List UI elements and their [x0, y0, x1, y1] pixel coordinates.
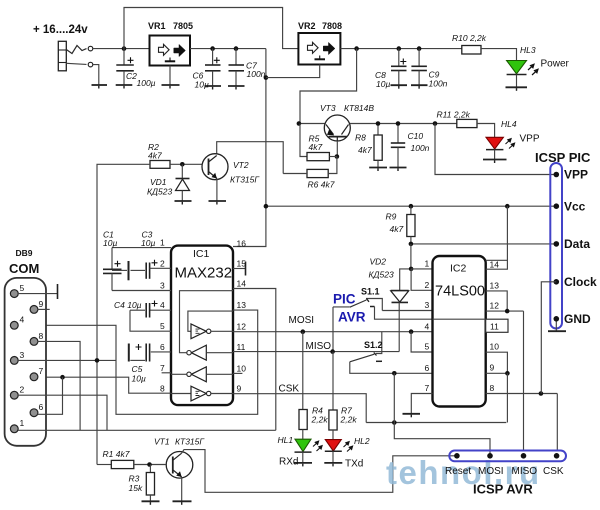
svg-text:AVR: AVR	[338, 310, 366, 325]
svg-text:ICSP PIC: ICSP PIC	[535, 150, 591, 165]
svg-text:7: 7	[425, 383, 430, 393]
svg-text:R6 4k7: R6 4k7	[308, 180, 335, 190]
node: MISO row junction (S1.1 common)	[330, 349, 335, 354]
ground (jack)	[92, 83, 108, 89]
transistor VT3 KT814B (PNP)	[324, 115, 350, 141]
svg-text:VPP: VPP	[520, 134, 540, 145]
capacitor C10	[391, 124, 405, 168]
svg-text:6: 6	[160, 342, 165, 352]
svg-text:ICSP AVR: ICSP AVR	[473, 482, 533, 497]
ground (C10)	[390, 168, 407, 172]
wire: R6 left lead	[283, 173, 307, 175]
svg-text:HL3: HL3	[520, 45, 536, 55]
wire: VR1 ground pin	[169, 66, 171, 86]
svg-text:10µ: 10µ	[195, 80, 209, 90]
ground (C2)	[116, 85, 133, 89]
IC2 74LS00 body	[433, 256, 486, 407]
ICSP AVR connector capsule	[449, 451, 566, 462]
node: MOSI row to IC2 pin5	[409, 329, 414, 334]
wire: VPP to ICSP PIC	[435, 124, 556, 175]
svg-text:R10 2,2k: R10 2,2k	[452, 33, 487, 43]
node: pins 12/13 tie	[505, 309, 510, 314]
wire: MISO row (IC1 pin11 to VD2)	[233, 351, 399, 353]
capacitor C4 (pins 4-5)	[130, 301, 171, 332]
resistor R11	[457, 119, 477, 127]
wire: left column from R2 down to R1	[97, 164, 150, 464]
svg-text:2,2k: 2,2k	[340, 415, 358, 425]
resistor R1	[97, 460, 166, 468]
svg-text:10µ: 10µ	[141, 238, 155, 248]
svg-text:MISO: MISO	[306, 341, 332, 352]
svg-text:8: 8	[39, 331, 44, 341]
node: C10 top	[396, 121, 401, 126]
svg-text:9: 9	[237, 384, 242, 394]
resistor R3	[146, 465, 154, 502]
svg-text:74LS00: 74LS00	[435, 284, 485, 300]
svg-text:COM: COM	[9, 261, 39, 276]
wire: S1.1 PIC throw to IC2 pin3	[382, 310, 432, 312]
LED HL4 (red, VPP)	[486, 137, 515, 159]
wire: Data node down to IC2 pin1	[410, 244, 412, 269]
node: raw input junction	[122, 46, 127, 51]
svg-text:R11 2,2k: R11 2,2k	[437, 110, 471, 120]
transistor VT2 KT315G (NPN)	[202, 154, 228, 180]
node: pins 9/10 tie	[505, 371, 510, 376]
svg-text:100n: 100n	[411, 143, 430, 153]
svg-text:Data: Data	[564, 237, 590, 251]
svg-text:КД523: КД523	[147, 187, 172, 197]
node: R1/R3/VT1 base	[147, 462, 152, 467]
wire: R6 right to base node	[328, 157, 337, 174]
svg-text:14: 14	[237, 279, 247, 289]
svg-text:9: 9	[490, 363, 495, 373]
node: VT3 emitter junction	[297, 121, 302, 126]
svg-text:R8: R8	[355, 133, 366, 143]
svg-text:10: 10	[490, 342, 500, 352]
ground (HL1)	[294, 463, 312, 467]
regulator VR2 7808	[298, 33, 340, 65]
svg-text:6: 6	[39, 402, 44, 412]
svg-text:12: 12	[237, 322, 247, 332]
DB9 pin 6	[30, 402, 43, 417]
pin Reset	[454, 453, 460, 459]
IC1 left pin labels 1..8	[160, 238, 165, 394]
svg-text:100n: 100n	[247, 69, 266, 79]
node: R2/VD1 junction	[180, 162, 185, 167]
svg-text:VD1: VD1	[150, 177, 167, 187]
ground (HL2)	[324, 463, 342, 467]
node: DB9 pin6/7 tie	[60, 375, 65, 380]
svg-text:6: 6	[425, 363, 430, 373]
DB9 pin 1	[10, 418, 24, 433]
wire: DB9 pin1 row to IC1 pin14 route	[18, 429, 276, 431]
IC2 pin 13	[486, 281, 508, 312]
IC2 pin 11 box	[486, 319, 508, 332]
svg-text:C2: C2	[126, 71, 137, 81]
svg-text:MOSI: MOSI	[289, 315, 315, 326]
svg-text:4: 4	[160, 300, 165, 310]
svg-text:Vcc: Vcc	[564, 200, 586, 214]
pin GND	[554, 316, 560, 322]
switch S1.1	[333, 299, 486, 320]
ground (VD1)	[175, 201, 192, 205]
svg-text:GND: GND	[564, 312, 591, 326]
svg-text:PIC: PIC	[333, 292, 356, 307]
jack lower contact	[66, 62, 92, 67]
wire: DB9 pin6 up to pin7	[38, 377, 63, 414]
svg-text:7: 7	[39, 366, 44, 376]
capacitor C3 (series, pin 2)	[112, 260, 171, 281]
wire: VR1 output 5V rail	[190, 48, 266, 50]
diode VD1 KD523	[176, 164, 190, 201]
wire: VT3 base down	[336, 141, 338, 157]
svg-text:11: 11	[490, 322, 499, 332]
IC1 internal inverter T1 (schmitt, pins 13->12)	[188, 311, 233, 339]
DB9 pin 8	[30, 331, 43, 345]
ground (HL4)	[483, 160, 507, 164]
svg-text:IC1: IC1	[193, 248, 210, 260]
svg-text:7: 7	[160, 363, 165, 373]
wire: MISO column to ICSP AVR	[523, 311, 525, 450]
svg-text:Reset: Reset	[445, 466, 471, 477]
svg-text:4k7: 4k7	[358, 145, 372, 155]
wire: S1.1 AVR throw crossing IC2 to pin 11	[433, 318, 486, 320]
svg-text:MISO: MISO	[512, 466, 538, 477]
svg-text:КТ814В: КТ814В	[344, 103, 374, 113]
svg-text:+ 16....24v: + 16....24v	[33, 24, 88, 36]
svg-text:7808: 7808	[322, 21, 342, 31]
svg-text:VPP: VPP	[564, 168, 588, 182]
svg-text:MOSI: MOSI	[478, 466, 504, 477]
node: IC2 pin14 branch on Vcc	[505, 204, 510, 209]
pin CSK (AVR)	[554, 453, 560, 459]
node: VT3 base node	[335, 154, 340, 159]
resistor R8	[374, 124, 382, 168]
wire: S1.2 common down / MOSI feed	[394, 373, 490, 456]
svg-text:10: 10	[237, 364, 247, 374]
IC1 pin 15 stub with bar	[233, 259, 246, 276]
ground (HL3)	[506, 87, 528, 91]
svg-text:CSK: CSK	[279, 384, 300, 395]
node: C7 junction	[234, 46, 239, 51]
LED HL3 (green, Power)	[507, 61, 538, 88]
wire: DB9 pin2 (RX) to pin1 row	[18, 395, 107, 430]
wire: Vcc line 5V to ICSP PIC	[266, 205, 556, 207]
svg-text:R9: R9	[386, 212, 397, 222]
resistor R2	[150, 161, 170, 169]
node: 13V branch	[354, 46, 359, 51]
DB9 pin 4	[10, 315, 24, 330]
svg-text:4: 4	[20, 315, 25, 325]
capacitor C8	[391, 49, 407, 86]
svg-text:5: 5	[160, 321, 165, 331]
ground (R8)	[369, 168, 387, 172]
power jack J1	[58, 41, 66, 71]
node: C6 junction	[210, 46, 215, 51]
svg-text:1: 1	[20, 418, 25, 428]
svg-text:C4 10µ: C4 10µ	[114, 300, 142, 310]
node: TX to R2/R1 column	[95, 358, 100, 363]
node: VPP branch	[433, 121, 438, 126]
svg-text:IC2: IC2	[450, 263, 467, 275]
ICSP PIC connector capsule	[550, 163, 562, 329]
svg-text:10µ: 10µ	[132, 374, 146, 384]
svg-text:7805: 7805	[173, 21, 193, 31]
wire: switch to +V node	[93, 48, 150, 50]
diode VD2 KD523	[391, 269, 411, 352]
ground (ICSP PIC)	[548, 322, 566, 332]
svg-text:4k7: 4k7	[390, 224, 404, 234]
svg-text:1: 1	[160, 238, 165, 248]
wire: DB9 pin3 row (TX)	[18, 359, 116, 361]
svg-text:2,2k: 2,2k	[311, 415, 329, 425]
wire: R2 to VT2 base	[170, 163, 203, 165]
svg-text:TXd: TXd	[345, 459, 363, 470]
IC2 pin 9	[486, 363, 508, 374]
node: IC2 pin1/R9 junction	[409, 267, 414, 272]
resistor R9	[407, 206, 415, 244]
regulator VR1 7805	[150, 36, 191, 66]
wire: VT1 collector to ICSP AVR Reset	[182, 450, 457, 493]
svg-text:CSK: CSK	[543, 466, 564, 477]
svg-text:C10: C10	[408, 131, 424, 141]
DB9 pin 9	[30, 299, 50, 313]
svg-text:8: 8	[160, 384, 165, 394]
DB9 pin 3	[10, 350, 24, 364]
wire: Data line to ICSP PIC	[411, 243, 556, 245]
wire: IC1 pin8 row from DB9 pins 6/7	[18, 377, 171, 393]
wire: MOSI row (IC1 pin12 to IC2 pin4)	[233, 331, 433, 333]
node: C9 junction	[417, 46, 422, 51]
IC2 pin 10	[486, 342, 508, 374]
ground (VT2)	[209, 201, 227, 205]
svg-text:КД523: КД523	[369, 270, 394, 280]
wire: top rail raw supply to VR2 input	[124, 8, 298, 49]
svg-text:100µ: 100µ	[137, 78, 156, 88]
switch on jack (upper contact)	[66, 46, 92, 54]
capacitor C2	[116, 49, 134, 85]
svg-text:14: 14	[490, 260, 500, 270]
pin VPP	[554, 172, 560, 178]
wire: 13V down to VT3 emitter	[300, 49, 357, 124]
svg-text:VR1: VR1	[148, 21, 166, 31]
wire: R5 to base node	[329, 156, 337, 158]
svg-text:5: 5	[20, 283, 25, 293]
svg-text:R3: R3	[129, 474, 140, 484]
ground (VT1)	[173, 501, 192, 505]
node: R9 bottom / Data	[409, 242, 414, 247]
node: Vcc at 5V rail	[264, 204, 269, 209]
node: S1.2/pin6 junction	[392, 371, 397, 376]
wire: S1.1 common down to MISO/TXd column	[332, 307, 334, 352]
wire: Clock to IC2 pin8	[541, 282, 556, 394]
wire: R10 to HL3	[481, 49, 517, 60]
svg-text:2: 2	[160, 259, 165, 269]
svg-text:100n: 100n	[429, 79, 448, 89]
svg-text:2: 2	[425, 280, 430, 290]
node: CSK/S1.2 crossing junction	[392, 420, 397, 425]
wire: jack return to ground	[93, 65, 99, 83]
svg-text:VT2: VT2	[233, 160, 249, 170]
svg-text:S1.1: S1.1	[361, 287, 380, 297]
IC2 left pin labels	[425, 259, 430, 394]
svg-text:C5: C5	[132, 364, 143, 374]
ground (C8)	[391, 85, 408, 89]
svg-text:R1 4k7: R1 4k7	[103, 449, 130, 459]
DB9 connector COM	[5, 278, 46, 446]
wire: IC1 pin13 row to DB9 pin4 route	[18, 310, 258, 414]
wire: IC1 pin14 row to DB9 pin1/2	[233, 289, 276, 431]
IC1 internal inverter T3 (pins 10->7)	[171, 367, 233, 382]
svg-text:9: 9	[39, 299, 44, 309]
LED HL2 (red, TXd)	[325, 440, 353, 463]
LED HL1 (green, RXd)	[295, 439, 323, 463]
pin Clock	[554, 279, 560, 285]
node: R8 top	[376, 121, 381, 126]
wire: CSK row (IC1 pin9)	[233, 394, 366, 423]
pin Vcc	[554, 203, 560, 209]
wire: 13V to R5	[300, 124, 307, 157]
node: C8 junction	[397, 46, 402, 51]
svg-text:Power: Power	[541, 59, 570, 70]
wire: IC2 pin2 tie to pin1	[411, 269, 432, 290]
node: MOSI row branch to R4	[301, 329, 306, 334]
ground (C7)	[228, 86, 245, 90]
resistor R7	[329, 410, 337, 439]
wire: VR2 ground pin to 5V node	[266, 65, 320, 78]
resistor R6	[307, 169, 328, 177]
svg-text:HL4: HL4	[501, 119, 517, 129]
IC2 pin 14 (box to Vcc)	[486, 206, 508, 269]
resistor R5	[307, 153, 329, 161]
IC1 MAX232 body	[171, 246, 233, 406]
DB9 pin 5	[10, 283, 57, 299]
IC1 internal inverter T4 (schmitt, pins 8->9)	[171, 386, 233, 401]
pin Data	[554, 241, 560, 247]
DB9 pin 2	[10, 385, 24, 400]
capacitor C7	[229, 49, 245, 86]
wire: S1.2 common to IC2 pin6	[394, 372, 432, 374]
wire: pin8 to ICSP AVR CSK	[556, 394, 558, 451]
DB9 pin 7	[30, 366, 43, 381]
svg-text:16: 16	[237, 239, 247, 249]
IC1 internal inverter T2 (pins 11->14)	[180, 291, 234, 361]
wire: VT3 emitter row	[300, 123, 325, 125]
svg-text:Clock: Clock	[564, 275, 597, 289]
svg-text:11: 11	[237, 342, 246, 352]
wire: IC2 pin1 stub	[411, 268, 432, 270]
svg-text:1: 1	[425, 259, 430, 269]
IC2 pin7 to ground	[403, 394, 433, 418]
resistor R4	[299, 410, 307, 439]
wire: 5V rail down the middle (to Vcc and IC1 pin16)	[233, 49, 266, 247]
pin MISO (AVR)	[521, 453, 527, 459]
svg-text:VR2: VR2	[298, 21, 316, 31]
svg-text:8: 8	[490, 383, 495, 393]
wire: MOSI row down to IC2 pin5	[411, 332, 432, 352]
svg-text:VT1: VT1	[154, 437, 170, 447]
svg-text:10µ: 10µ	[103, 238, 117, 248]
IC2 pin 12 / MISO takeoff	[486, 301, 524, 312]
svg-text:VD2: VD2	[370, 257, 387, 267]
svg-text:DB9: DB9	[16, 248, 33, 258]
svg-text:4: 4	[425, 322, 430, 332]
wire: pins 9/10 down to MOSI-net	[506, 373, 508, 422]
svg-text:HL1: HL1	[278, 435, 294, 445]
wire: VT1 emitter to ground	[181, 477, 183, 501]
svg-text:3: 3	[20, 350, 25, 360]
svg-text:12: 12	[490, 301, 500, 311]
wire: CSK net routing to MOSI pin	[366, 422, 506, 424]
svg-text:15: 15	[237, 259, 247, 269]
svg-text:3: 3	[160, 281, 165, 291]
node: clock junction	[539, 391, 544, 396]
svg-text:RXd: RXd	[279, 457, 298, 468]
wire: MOSI branch down to R4	[302, 332, 304, 410]
pin MOSI (AVR)	[487, 453, 493, 459]
ground (C6)	[205, 86, 222, 90]
ground (R3)	[142, 501, 160, 505]
svg-text:MAX232: MAX232	[175, 265, 233, 282]
IC1 pin 10 stub	[233, 364, 246, 374]
node: R9 top	[409, 204, 414, 209]
resistor R10	[462, 46, 481, 55]
capacitor C5 (pins 6-7)	[129, 344, 171, 362]
wire: VT3 collector row (VPP line)	[350, 123, 462, 125]
capacitor C9	[411, 49, 427, 86]
svg-text:15k: 15k	[129, 483, 143, 493]
wire: S1.1 common column down to R7	[332, 352, 334, 410]
svg-text:5: 5	[425, 342, 430, 352]
svg-text:КТ315Г: КТ315Г	[230, 175, 260, 185]
svg-text:2: 2	[20, 385, 25, 395]
wire: IC1 pin7 stub	[162, 372, 171, 374]
wire: R11 to HL4	[477, 124, 495, 138]
svg-text:КТ315Г: КТ315Г	[175, 437, 205, 447]
ground (C9)	[411, 85, 428, 89]
capacitor C6	[205, 49, 221, 86]
node: VR2 gnd lift junction	[264, 75, 269, 80]
svg-text:10µ: 10µ	[376, 79, 390, 89]
IC2 pin 8 row (Clock out)	[486, 383, 558, 394]
svg-text:13: 13	[237, 300, 247, 310]
capacitor C1 (pins 1-3)	[103, 248, 171, 291]
wire: DB9 pin8 to DCD net	[38, 341, 81, 430]
wire: VR2 output 13V	[340, 48, 461, 50]
svg-text:4k7: 4k7	[148, 151, 162, 161]
ground (VR1)	[162, 85, 180, 89]
svg-text:VT3: VT3	[320, 103, 336, 113]
svg-text:3: 3	[425, 300, 430, 310]
transistor VT1 KT315G (NPN)	[166, 452, 193, 479]
svg-text:HL2: HL2	[354, 436, 370, 446]
svg-text:S1.2: S1.2	[364, 340, 383, 350]
svg-text:4k7: 4k7	[309, 142, 323, 152]
switch S1.2	[350, 332, 395, 374]
svg-text:13: 13	[490, 281, 500, 291]
wire: VT2 emitter to ground	[216, 179, 218, 202]
wire: VT2 collector to R6 left	[217, 142, 284, 174]
